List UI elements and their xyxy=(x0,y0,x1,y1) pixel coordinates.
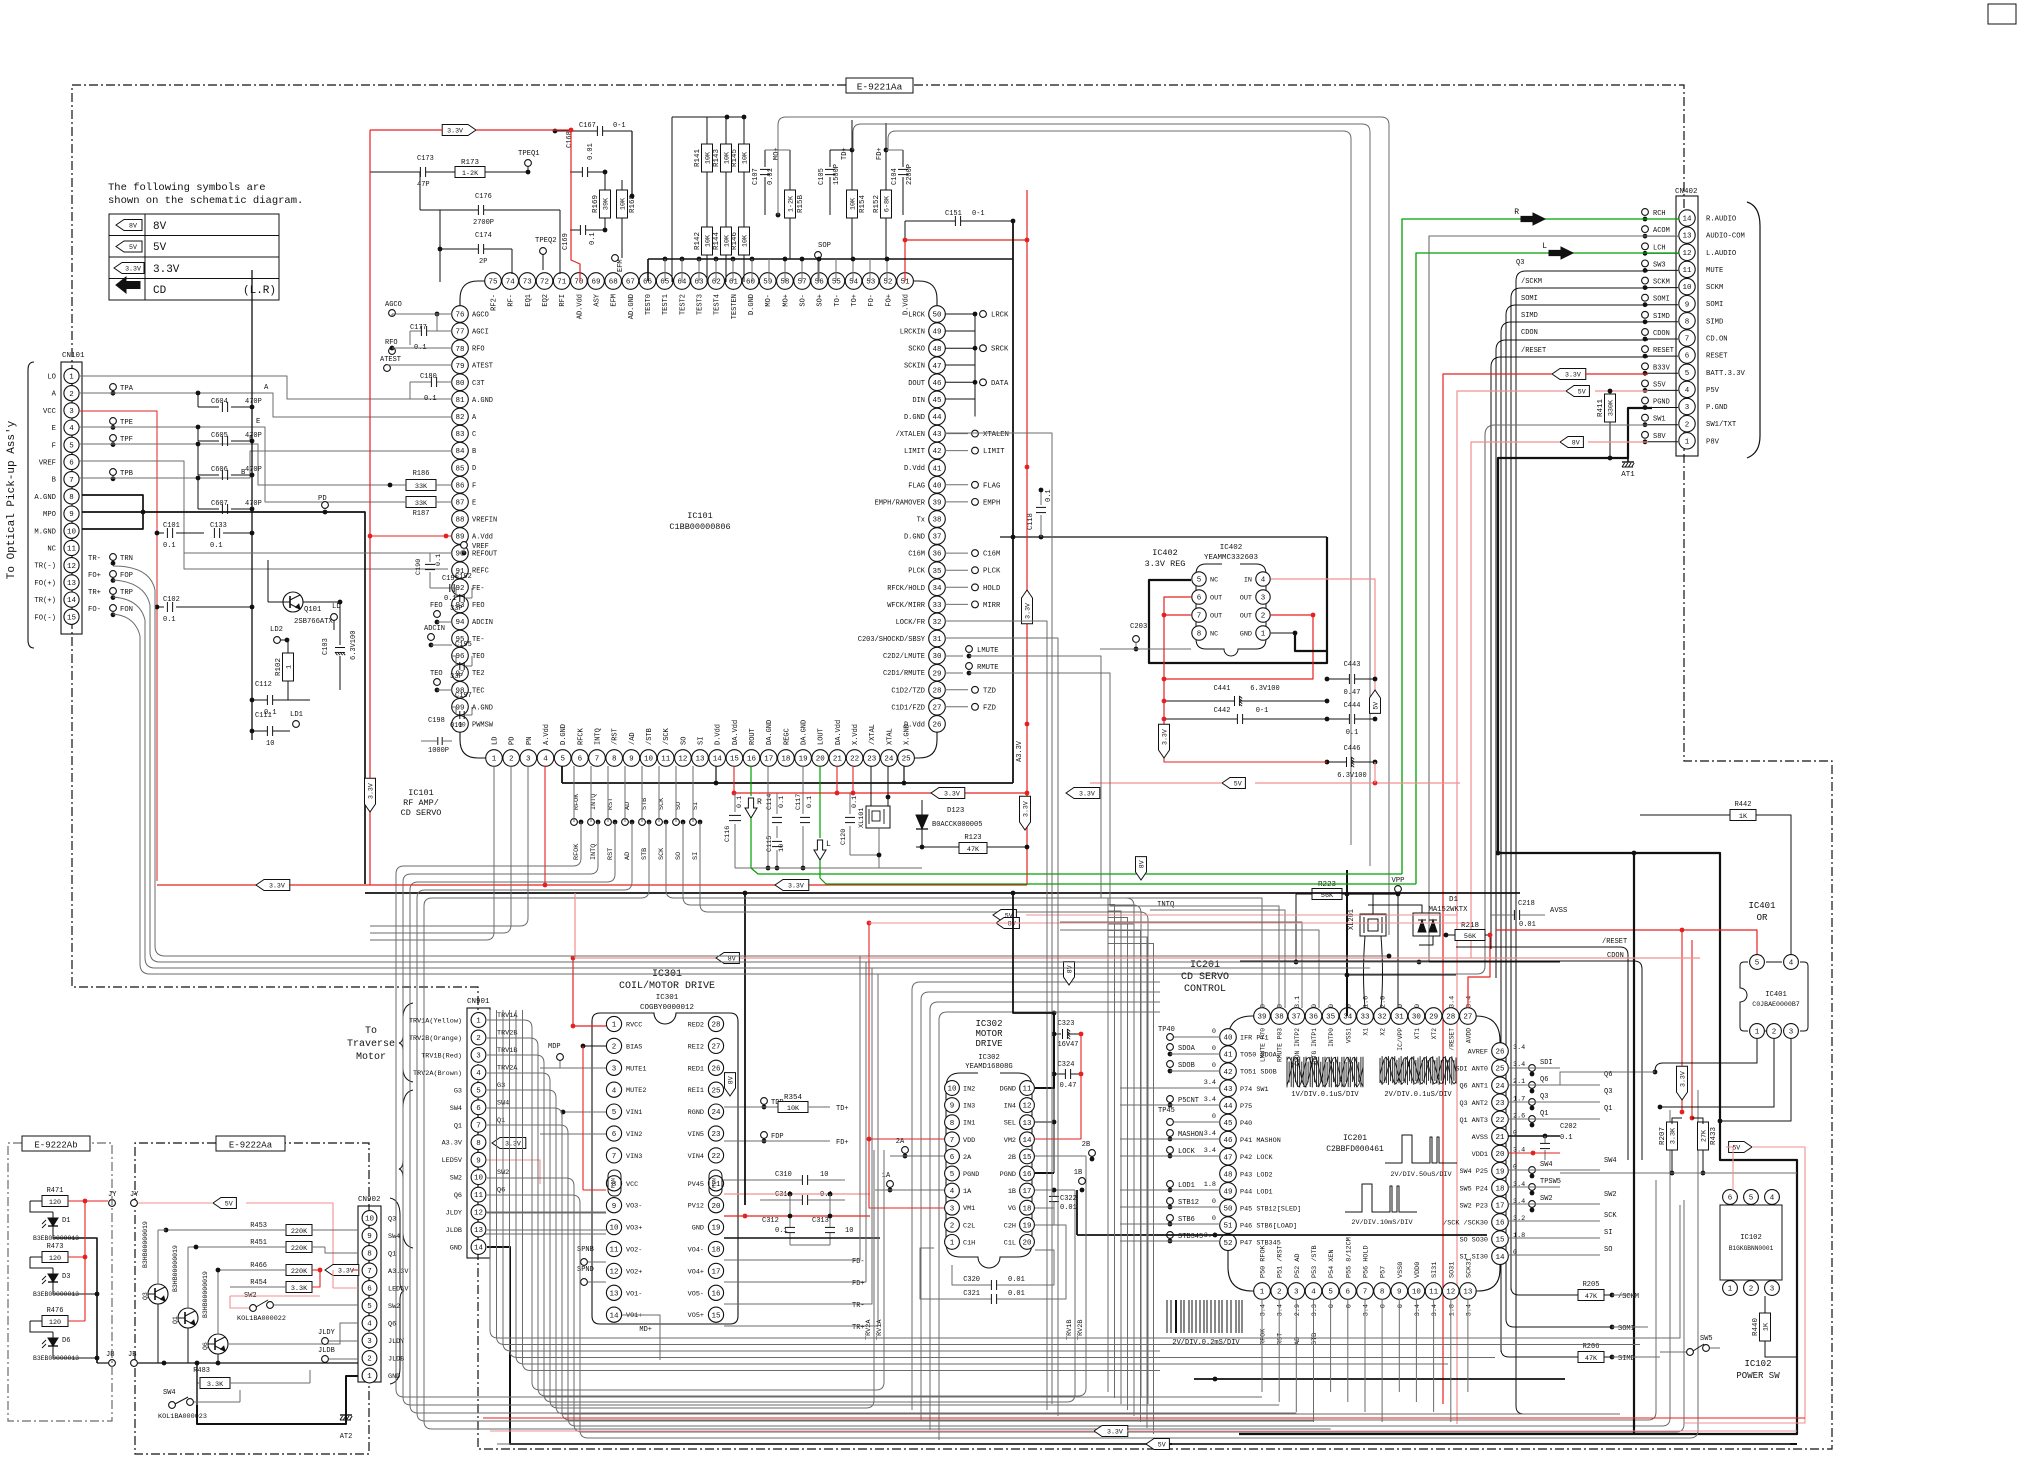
wire bus y962 xyxy=(1296,961,1560,963)
IC201 pin 14 xyxy=(1492,1248,1509,1265)
svg-text:26: 26 xyxy=(711,1065,721,1073)
svg-text:A.Vdd: A.Vdd xyxy=(543,724,551,745)
svg-text:IC402: IC402 xyxy=(1220,544,1243,552)
svg-text:EMPH/RAMOVER: EMPH/RAMOVER xyxy=(875,499,926,507)
svg-text:8V: 8V xyxy=(129,223,137,230)
svg-text:8V: 8V xyxy=(1572,440,1580,447)
svg-text:COGBY0000012: COGBY0000012 xyxy=(640,1004,694,1012)
svg-text:R483: R483 xyxy=(193,1367,210,1375)
svg-text:42: 42 xyxy=(1223,1069,1232,1077)
svg-text:VG: VG xyxy=(1008,1205,1016,1213)
svg-text:VO4-: VO4- xyxy=(688,1247,704,1255)
svg-text:40: 40 xyxy=(1223,1035,1233,1043)
svg-text:36: 36 xyxy=(932,551,942,559)
wire XL101 bottom xyxy=(850,854,879,856)
svg-text:C442: C442 xyxy=(1214,707,1231,715)
svg-text:CD SERVO: CD SERVO xyxy=(1181,972,1229,983)
wire EQ cluster xyxy=(439,210,441,282)
svg-text:85: 85 xyxy=(455,465,465,473)
svg-text:C180: C180 xyxy=(420,373,437,381)
svg-text:AGCI: AGCI xyxy=(472,329,489,337)
svg-text:10K: 10K xyxy=(620,197,628,210)
svg-text:To: To xyxy=(365,1026,377,1037)
wire A.GND vertical xyxy=(251,270,253,740)
IC201 pin 10 xyxy=(1408,1283,1425,1300)
IC302 pin 15 xyxy=(1020,1149,1035,1164)
wire S5V pink 5V xyxy=(1566,386,1589,397)
svg-text:TPE: TPE xyxy=(120,419,133,427)
IC101 pin 18 xyxy=(778,750,795,767)
svg-text:36: 36 xyxy=(1309,1014,1319,1022)
svg-text:3: 3 xyxy=(1789,1029,1794,1037)
IC201 pin 24 xyxy=(1492,1077,1509,1094)
IC301 pin 5 xyxy=(606,1104,621,1119)
svg-text:SI: SI xyxy=(1604,1229,1612,1237)
svg-text:27: 27 xyxy=(1463,1014,1472,1022)
svg-text:44: 44 xyxy=(1223,1103,1233,1111)
IC101 pin 86 xyxy=(452,477,469,494)
svg-text:10: 10 xyxy=(947,1086,957,1094)
svg-text:A.GND: A.GND xyxy=(34,494,56,502)
ground AT2 xyxy=(340,1414,352,1416)
CN902 pin 7 xyxy=(362,1263,377,1278)
svg-text:3.4: 3.4 xyxy=(1513,1198,1525,1206)
wire Q3 collector xyxy=(157,1230,159,1284)
IC101 pin 2 xyxy=(503,750,520,767)
svg-text:2: 2 xyxy=(1749,1286,1754,1294)
svg-text:0.1: 0.1 xyxy=(424,395,437,403)
svg-text:33: 33 xyxy=(932,602,942,610)
IC101 pin 68 xyxy=(605,273,622,290)
wire 5V red IC102 loop xyxy=(1726,1146,1733,1148)
svg-text:VREF: VREF xyxy=(39,460,56,468)
wire SO out xyxy=(1508,1254,1600,1256)
svg-text:41: 41 xyxy=(1223,1052,1233,1060)
svg-text:Q3: Q3 xyxy=(142,1292,149,1300)
wire IC402 pin1 gnd xyxy=(1271,632,1295,634)
svg-text:X.GND: X.GND xyxy=(904,724,912,745)
svg-text:2: 2 xyxy=(612,1044,617,1052)
wire IC302 DGND thick xyxy=(1035,1013,1054,1088)
svg-text:MO+: MO+ xyxy=(773,147,781,160)
IC201 pin 22 xyxy=(1492,1111,1509,1128)
svg-text:VO3-: VO3- xyxy=(626,1203,642,1211)
wire PGND branch thick xyxy=(1633,853,1635,1434)
IC301 pin 1 xyxy=(606,1016,621,1031)
IC101 pin 21 xyxy=(829,750,846,767)
IC101 pin 83 xyxy=(452,425,469,442)
IC101 pin 55 xyxy=(828,273,845,290)
svg-text:C606: C606 xyxy=(211,466,228,474)
svg-text:22: 22 xyxy=(711,1153,720,1161)
svg-text:MIRR: MIRR xyxy=(983,602,1001,610)
svg-text:CDON: CDON xyxy=(1653,330,1670,338)
svg-text:C1H: C1H xyxy=(963,1239,975,1247)
svg-text:48: 48 xyxy=(932,346,941,354)
svg-text:D: D xyxy=(472,465,476,473)
IC101 pin 40 xyxy=(929,477,946,494)
wire E pin4 xyxy=(79,427,452,502)
wire C167 net xyxy=(631,131,633,196)
svg-text:POWER SW: POWER SW xyxy=(1736,1371,1780,1381)
svg-text:X2: X2 xyxy=(1380,1028,1387,1036)
wire C116 gnd xyxy=(735,867,803,869)
svg-text:CDON: CDON xyxy=(1607,952,1624,960)
test point SW3 CN402 xyxy=(1642,260,1649,267)
svg-text:7: 7 xyxy=(367,1268,372,1276)
svg-text:TR-: TR- xyxy=(88,555,101,563)
wire C151 left xyxy=(904,221,906,240)
IC101 pin 42 xyxy=(929,442,946,459)
svg-text:P42 LOCK: P42 LOCK xyxy=(1240,1154,1274,1162)
IC101 pin 50 xyxy=(929,306,946,323)
svg-text:53: 53 xyxy=(866,279,876,287)
svg-text:D1: D1 xyxy=(62,1217,70,1225)
IC101 pin 29 xyxy=(929,664,946,681)
test point PD xyxy=(322,502,329,509)
test point DATA xyxy=(945,381,975,383)
svg-text:39K: 39K xyxy=(603,197,611,210)
svg-text:SCK31: SCK31 xyxy=(1465,1258,1473,1278)
svg-text:P52 AD: P52 AD xyxy=(1294,1254,1302,1278)
IC201 pin 42 xyxy=(1220,1063,1237,1080)
svg-text:1: 1 xyxy=(367,1373,372,1381)
test point STB12 xyxy=(1167,1198,1174,1205)
wire TR- out xyxy=(724,1303,845,1305)
svg-text:0: 0 xyxy=(1328,1004,1336,1008)
svg-text:TR(-): TR(-) xyxy=(34,563,56,571)
svg-text:/XTAL: /XTAL xyxy=(869,724,877,745)
wire D123 top red xyxy=(904,240,906,281)
IC101 pin 99 xyxy=(452,699,469,716)
svg-text:2V/DIV.0.2mS/DIV: 2V/DIV.0.2mS/DIV xyxy=(1172,1339,1240,1347)
svg-text:FO+: FO+ xyxy=(885,294,893,307)
svg-text:TR+: TR+ xyxy=(88,589,101,597)
svg-text:RED2: RED2 xyxy=(688,1022,704,1030)
svg-text:17: 17 xyxy=(1495,1203,1504,1211)
IC301 pin 4 xyxy=(606,1082,621,1097)
svg-text:/SCKM: /SCKM xyxy=(1618,1293,1639,1301)
svg-text:6: 6 xyxy=(1728,1195,1733,1203)
svg-text:XTALEN: XTALEN xyxy=(983,431,1009,439)
svg-text:SW4: SW4 xyxy=(1604,1157,1617,1165)
svg-text:FD+: FD+ xyxy=(876,147,884,160)
IC101 pin 93 xyxy=(452,596,469,613)
svg-text:C2D1/RMUTE: C2D1/RMUTE xyxy=(883,670,925,678)
svg-text:XL101: XL101 xyxy=(858,808,866,828)
svg-text:84: 84 xyxy=(455,448,465,456)
svg-text:G3: G3 xyxy=(497,1082,505,1090)
svg-text:3.4: 3.4 xyxy=(1431,1304,1439,1316)
IC101 pin 31 xyxy=(929,630,946,647)
wire BIAS xyxy=(583,1045,606,1047)
wire PV12 red xyxy=(724,1215,870,1217)
svg-text:R411: R411 xyxy=(1597,399,1605,418)
svg-text:5: 5 xyxy=(1328,1289,1333,1297)
power tag 3.3V down x1025 xyxy=(1020,796,1031,830)
IC101 pin 47 xyxy=(929,357,946,374)
svg-text:47K: 47K xyxy=(1585,1355,1598,1363)
svg-text:52: 52 xyxy=(1223,1240,1232,1248)
svg-text:3.4: 3.4 xyxy=(1513,1044,1525,1052)
E-9222Ab board boundary xyxy=(8,1143,112,1421)
svg-text:43: 43 xyxy=(1223,1086,1233,1094)
svg-text:VSS0: VSS0 xyxy=(1397,1262,1405,1278)
svg-text:C203: C203 xyxy=(1130,623,1147,631)
svg-text:3.3V REG: 3.3V REG xyxy=(1145,559,1186,569)
svg-text:C107: C107 xyxy=(752,168,760,185)
svg-text:D123: D123 xyxy=(947,807,964,815)
wire Q101 base xyxy=(268,601,283,603)
svg-text:NC: NC xyxy=(47,546,56,554)
svg-text:82: 82 xyxy=(455,414,464,422)
svg-text:AVDD: AVDD xyxy=(1465,1028,1472,1043)
svg-text:RF AMP/: RF AMP/ xyxy=(403,798,439,808)
svg-text:10: 10 xyxy=(474,1175,484,1183)
svg-text:3.3V: 3.3V xyxy=(153,264,180,276)
IC101 pin 100 xyxy=(452,716,469,733)
CN901 pin 10 xyxy=(471,1170,486,1185)
svg-text:3.3V: 3.3V xyxy=(1024,603,1031,619)
svg-text:13: 13 xyxy=(474,1227,484,1235)
IC301 pin 15 xyxy=(708,1307,723,1322)
IC101 pin 1 xyxy=(486,750,503,767)
svg-text:2B: 2B xyxy=(1082,1141,1090,1149)
wire Q1 collector xyxy=(187,1247,189,1308)
svg-text:24: 24 xyxy=(1495,1083,1505,1091)
svg-text:C324: C324 xyxy=(1058,1061,1075,1069)
IC401 pin 3 xyxy=(1784,1024,1799,1039)
wire VSS1 thick xyxy=(1346,870,1348,1016)
wire pin stubs to bus xyxy=(664,259,666,281)
svg-text:AD.GND: AD.GND xyxy=(628,294,636,319)
svg-text:PGND: PGND xyxy=(1653,399,1670,407)
wire bus y975 xyxy=(1347,974,1456,976)
svg-text:SW2: SW2 xyxy=(1540,1195,1553,1203)
svg-text:5: 5 xyxy=(367,1303,372,1311)
svg-text:IC302: IC302 xyxy=(978,1054,1000,1062)
svg-text:FEO: FEO xyxy=(472,602,485,610)
svg-text:LRCKIN: LRCKIN xyxy=(900,329,925,337)
wire VO3- to CN902 xyxy=(480,1211,606,1213)
wire MUTE1 xyxy=(540,1067,606,1069)
svg-text:10: 10 xyxy=(778,844,786,852)
wire top bus dark xyxy=(648,258,1013,260)
resistor R145 xyxy=(739,144,750,172)
svg-text:C151: C151 xyxy=(945,210,962,218)
resistor R440 xyxy=(1760,1313,1771,1341)
svg-text:TRV1B(Red): TRV1B(Red) xyxy=(421,1052,462,1060)
svg-text:B0ACCK000005: B0ACCK000005 xyxy=(932,821,982,829)
svg-text:SCKM: SCKM xyxy=(1706,284,1723,292)
CN902 pin 4 xyxy=(362,1316,377,1331)
IC101 pin 70 xyxy=(571,273,588,290)
power tag 3.3V R207 xyxy=(1677,1066,1688,1100)
svg-text:CN902: CN902 xyxy=(358,1196,381,1204)
svg-text:IC401: IC401 xyxy=(1748,901,1775,911)
CN902 pin 5 xyxy=(362,1298,377,1313)
svg-text:11: 11 xyxy=(1022,1086,1032,1094)
IC201 body outline xyxy=(1228,1016,1500,1291)
svg-text:1V/DIV.0.1uS/DIV: 1V/DIV.0.1uS/DIV xyxy=(1291,1091,1359,1099)
IC101 pin 17 xyxy=(760,750,777,767)
svg-text:C322: C322 xyxy=(1060,1195,1077,1203)
svg-text:3.3K: 3.3K xyxy=(1670,1127,1678,1144)
svg-text:5V: 5V xyxy=(1234,781,1242,788)
svg-text:MUTE2: MUTE2 xyxy=(626,1087,646,1095)
svg-text:TPB: TPB xyxy=(120,470,134,478)
test point XTALEN xyxy=(945,433,968,435)
svg-text:PLCK: PLCK xyxy=(908,568,926,576)
test point HOLD xyxy=(945,586,968,588)
svg-text:C103: C103 xyxy=(322,638,330,655)
IC301 pin 6 xyxy=(606,1126,621,1141)
svg-text:VREFIN: VREFIN xyxy=(472,517,497,525)
test point LMUTE xyxy=(945,655,963,657)
svg-text:TD+: TD+ xyxy=(841,147,849,160)
svg-text:4: 4 xyxy=(1685,387,1690,395)
IC201 pin 30 xyxy=(1408,1008,1425,1025)
svg-text:SW1/TXT: SW1/TXT xyxy=(1706,421,1737,429)
IC101 pin 87 xyxy=(452,494,469,511)
svg-text:20: 20 xyxy=(1022,1240,1032,1248)
svg-text:13: 13 xyxy=(695,756,705,764)
wire red 3.3V branch R207 xyxy=(1681,930,1683,1112)
IC402 pin 3 xyxy=(1256,590,1270,604)
svg-text:ADCIN: ADCIN xyxy=(472,619,493,627)
svg-text:0: 0 xyxy=(1397,1304,1405,1308)
svg-text:43: 43 xyxy=(932,431,942,439)
svg-text:3.4: 3.4 xyxy=(1465,996,1473,1008)
IC101 pin 75 xyxy=(485,273,502,290)
svg-text:VO5-: VO5- xyxy=(688,1290,704,1298)
svg-text:C190: C190 xyxy=(415,559,423,575)
svg-text:7: 7 xyxy=(1197,613,1202,621)
wire L audio green to CN402 xyxy=(1416,253,1679,884)
IC101 pin 73 xyxy=(519,273,536,290)
test point TPB xyxy=(110,469,117,476)
svg-text:14: 14 xyxy=(1495,1254,1505,1262)
test point SRCK xyxy=(945,347,975,349)
svg-text:3: 3 xyxy=(1770,1286,1775,1294)
wire LD PD PN drops xyxy=(370,766,494,940)
svg-text:TPEQ1: TPEQ1 xyxy=(518,150,540,158)
svg-text:SOP: SOP xyxy=(818,242,831,250)
svg-text:C441: C441 xyxy=(1214,685,1231,693)
svg-text:FO-: FO- xyxy=(88,606,101,614)
svg-text:TD+: TD+ xyxy=(836,1105,849,1113)
IC101 pin 33 xyxy=(929,596,946,613)
svg-text:IN2: IN2 xyxy=(963,1086,975,1094)
wire MPO pin9 bus xyxy=(82,512,365,884)
svg-text:CD.ON: CD.ON xyxy=(1706,336,1728,344)
svg-text:P5V: P5V xyxy=(1706,387,1720,395)
test point S5V CN402 xyxy=(1642,380,1649,387)
svg-text:EMPH: EMPH xyxy=(983,499,1000,507)
svg-text:VDD0: VDD0 xyxy=(1414,1262,1422,1278)
IC301 pin 17 xyxy=(708,1263,723,1278)
svg-text:R466: R466 xyxy=(250,1262,267,1270)
svg-text:470P: 470P xyxy=(245,466,262,474)
svg-text:3.3V: 3.3V xyxy=(1565,372,1581,379)
resistor R141 xyxy=(702,144,713,172)
wire gray loop FD+ top xyxy=(888,131,896,150)
svg-text:30: 30 xyxy=(932,653,942,661)
svg-text:SW2 P23: SW2 P23 xyxy=(1459,1202,1488,1210)
IC101 pin 25 xyxy=(898,750,915,767)
svg-text:C203/SHOCKD/SBSY: C203/SHOCKD/SBSY xyxy=(858,636,926,644)
svg-text:SCKIN: SCKIN xyxy=(904,363,925,371)
svg-text:12: 12 xyxy=(678,756,687,764)
svg-text:120: 120 xyxy=(49,1199,61,1207)
svg-text:TE2: TE2 xyxy=(472,670,485,678)
svg-text:1: 1 xyxy=(1685,438,1690,446)
IC201 pin 43 xyxy=(1220,1080,1237,1097)
svg-text:VIN4: VIN4 xyxy=(688,1153,704,1161)
IC301 FIN left xyxy=(608,1170,621,1196)
svg-text:RST: RST xyxy=(1277,1333,1285,1345)
svg-text:0: 0 xyxy=(1328,1304,1336,1308)
svg-text:75: 75 xyxy=(488,279,498,287)
svg-text:R169: R169 xyxy=(592,195,600,213)
svg-text:R142: R142 xyxy=(694,232,702,250)
wire mid bus TR FO to IC301 xyxy=(860,956,868,1260)
svg-text:LD: LD xyxy=(492,737,500,745)
svg-text:PD: PD xyxy=(318,495,327,503)
wire red branch R433 xyxy=(1691,940,1693,1118)
test point FDP xyxy=(761,1132,768,1139)
svg-text:B3HB00000019: B3HB00000019 xyxy=(142,1221,149,1268)
svg-text:8: 8 xyxy=(612,756,617,764)
svg-text:1.8: 1.8 xyxy=(1448,1304,1456,1316)
ground AT1 xyxy=(1622,461,1634,463)
svg-text:TRV1A: TRV1A xyxy=(497,1012,518,1020)
IC101 pin 56 xyxy=(811,273,828,290)
wire IC401 pin3 out xyxy=(1720,1039,1791,1121)
svg-text:11: 11 xyxy=(609,1247,619,1255)
svg-text:28: 28 xyxy=(1446,1014,1455,1022)
svg-text:C1L: C1L xyxy=(1004,1239,1016,1247)
svg-text:3.3K: 3.3K xyxy=(207,1381,224,1389)
svg-text:15: 15 xyxy=(1495,1237,1505,1245)
wire 3.3V D.Vdd51 red xyxy=(903,238,908,243)
power tag 5V IC402 xyxy=(1370,690,1381,713)
test point RESET CN402 xyxy=(1642,346,1649,353)
svg-text:Q3: Q3 xyxy=(388,1216,396,1224)
wire stub bundle left five xyxy=(396,830,1262,1397)
svg-text:10: 10 xyxy=(820,1171,828,1179)
wire D1 top xyxy=(1368,905,1422,913)
svg-text:RFI: RFI xyxy=(559,294,567,307)
svg-text:TEO: TEO xyxy=(472,653,485,661)
svg-text:10K: 10K xyxy=(742,234,750,247)
svg-text:15: 15 xyxy=(1022,1154,1032,1162)
IC302 pin 17 xyxy=(1020,1183,1035,1198)
IC402 pin 1 xyxy=(1256,626,1270,640)
svg-text:0.1: 0.1 xyxy=(435,554,443,566)
svg-text:27: 27 xyxy=(932,704,941,712)
svg-text:16V47: 16V47 xyxy=(1057,1041,1078,1049)
svg-text:0.1: 0.1 xyxy=(450,722,463,730)
svg-text:5: 5 xyxy=(950,1171,955,1179)
svg-text:LIMIT: LIMIT xyxy=(983,448,1005,456)
wire DIN link xyxy=(974,382,976,399)
svg-text:LD2: LD2 xyxy=(270,626,283,634)
svg-text:69: 69 xyxy=(591,279,600,287)
IC302 pin 20 xyxy=(1020,1235,1035,1250)
resistor R187 xyxy=(406,497,436,508)
svg-text:TRV1B: TRV1B xyxy=(1066,1320,1074,1340)
